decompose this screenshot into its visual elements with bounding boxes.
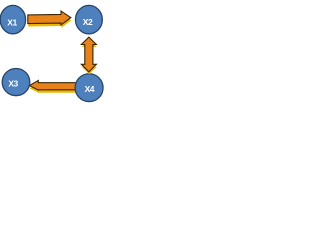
- svg-text:X3: X3: [8, 78, 18, 88]
- svg-text:X1: X1: [7, 18, 17, 28]
- svg-text:X4: X4: [85, 84, 95, 94]
- svg-text:X2: X2: [83, 17, 93, 27]
